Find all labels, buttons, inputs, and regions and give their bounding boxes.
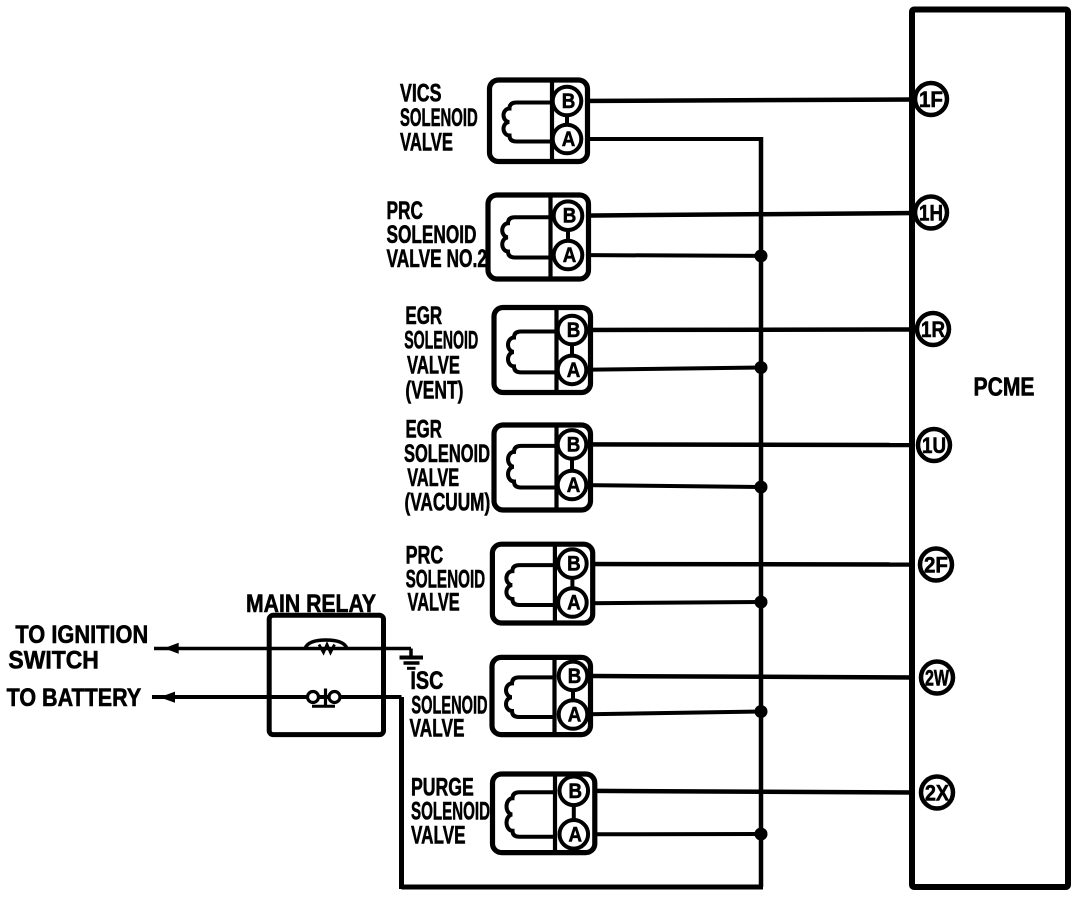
svg-text:2W: 2W (925, 666, 950, 691)
svg-text:SOLENOID: SOLENOID (404, 327, 478, 355)
svg-text:A: A (563, 244, 577, 267)
svg-text:SWITCH: SWITCH (8, 647, 99, 675)
svg-text:VALVE: VALVE (407, 352, 460, 380)
svg-text:TO BATTERY: TO BATTERY (7, 684, 142, 712)
svg-text:(VACUUM): (VACUUM) (405, 488, 491, 516)
svg-text:TO IGNITION: TO IGNITION (15, 621, 148, 649)
svg-text:1R: 1R (921, 317, 945, 342)
svg-text:A: A (567, 592, 581, 615)
svg-text:A: A (562, 128, 576, 151)
svg-text:PCME: PCME (974, 374, 1035, 402)
svg-text:B: B (567, 319, 581, 342)
svg-text:A: A (568, 704, 582, 727)
svg-text:B: B (567, 433, 581, 456)
svg-text:B: B (567, 553, 581, 576)
svg-text:2F: 2F (924, 553, 948, 578)
svg-text:1H: 1H (919, 201, 943, 226)
svg-text:VALVE: VALVE (408, 589, 460, 617)
svg-text:1F: 1F (919, 87, 943, 112)
svg-text:2X: 2X (925, 781, 949, 806)
svg-text:B: B (568, 665, 582, 688)
svg-text:B: B (569, 780, 583, 803)
svg-text:(VENT): (VENT) (405, 377, 463, 405)
svg-text:1U: 1U (922, 433, 946, 458)
svg-text:B: B (562, 90, 576, 113)
svg-text:B: B (563, 205, 577, 228)
svg-text:VALVE: VALVE (411, 821, 466, 849)
svg-text:VALVE: VALVE (400, 129, 453, 157)
svg-text:VALVE: VALVE (410, 714, 465, 742)
svg-text:A: A (567, 474, 581, 497)
svg-text:A: A (567, 359, 581, 382)
svg-text:A: A (569, 823, 583, 846)
svg-text:VALVE NO.2: VALVE NO.2 (387, 245, 488, 273)
svg-text:MAIN RELAY: MAIN RELAY (246, 590, 376, 618)
